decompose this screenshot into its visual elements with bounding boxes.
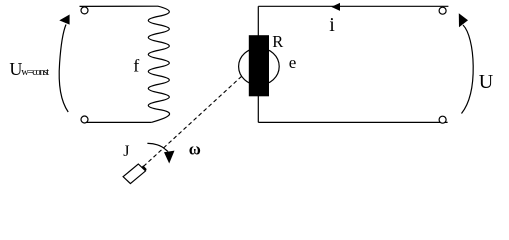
- svg-text:R: R: [272, 32, 283, 51]
- svg-text:i: i: [329, 14, 335, 36]
- svg-text:J: J: [123, 143, 129, 160]
- svg-text:f: f: [133, 55, 139, 75]
- svg-text:ω: ω: [189, 140, 201, 159]
- svg-text:U: U: [479, 71, 494, 93]
- svg-text:e: e: [289, 53, 297, 72]
- svg-text:w=const: w=const: [21, 67, 49, 78]
